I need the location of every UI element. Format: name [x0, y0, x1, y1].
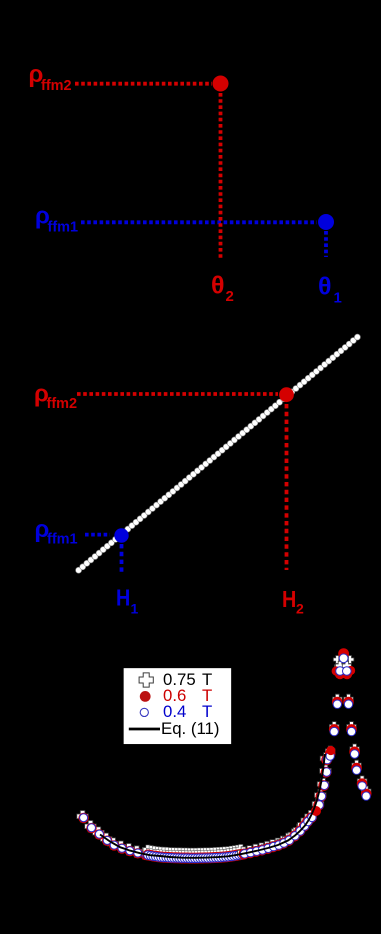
- legend blue open circle marker 0.4 T: [140, 708, 148, 716]
- label rho_ffm1 (middle panel, blue): [35, 516, 78, 548]
- red horizontal dotted line (middle panel): [77, 392, 278, 396]
- red dot H2 (middle panel): [279, 387, 294, 402]
- svg-text:H: H: [282, 587, 296, 613]
- blue vertical dotted line (top panel): [324, 231, 328, 257]
- red dot theta2 (top panel): [213, 76, 229, 92]
- diagonal chain of white data circles (middle panel): [76, 334, 361, 573]
- 0.6 T red circle markers: left slope: [78, 813, 150, 860]
- Eq. (11) black theory curve: [100, 754, 325, 858]
- svg-text:ffm2: ffm2: [41, 78, 72, 94]
- 0.75 T white cross markers: left slope: [77, 811, 151, 860]
- peak cluster: white/blue circles (0.4 T): [336, 654, 351, 675]
- peak cluster: white crosses (0.75 T): [333, 654, 354, 671]
- 0.4 T white/blue circle markers: spike branches: [326, 668, 370, 801]
- blue horizontal dotted line (top panel): [81, 220, 317, 224]
- 0.75 T cross markers: dense flat band: [143, 845, 245, 858]
- label H_2 (red): [282, 587, 304, 617]
- svg-text:θ: θ: [211, 272, 225, 300]
- 0.4 T white/blue circle markers: right slope chain: [240, 755, 331, 858]
- 0.6 T red circle markers: dense flat band: [143, 849, 248, 864]
- red vertical dotted line (middle panel): [285, 404, 289, 570]
- red vertical dotted line (top panel): [219, 93, 223, 260]
- 0.6 T red circle markers: spike branches: [325, 664, 372, 799]
- blue vertical dotted line (middle panel): [120, 544, 124, 574]
- 0.75 T cross markers: spike branches: [325, 662, 371, 796]
- svg-text:Eq. (11): Eq. (11): [161, 719, 219, 738]
- label rho_ffm2 (top panel, red): [29, 61, 72, 94]
- blue dot theta1 (top panel): [318, 214, 334, 230]
- legend box: [123, 668, 232, 745]
- svg-text:ffm2: ffm2: [47, 396, 78, 412]
- red horizontal dotted line (top panel): [75, 82, 212, 86]
- legend red circle marker 0.6 T: [140, 691, 151, 702]
- peak cluster: red circles cap (0.6 T): [332, 648, 356, 679]
- label rho_ffm1 (top panel, blue): [35, 202, 78, 235]
- svg-text:ffm1: ffm1: [47, 532, 78, 548]
- svg-text:H: H: [116, 585, 130, 611]
- svg-text:θ: θ: [318, 273, 332, 301]
- blue dot H1 (middle panel): [114, 528, 128, 542]
- 0.75 T cross markers: right slope chain: [238, 753, 332, 859]
- extra red 0.6T markers visible on steep left branch: [311, 746, 335, 816]
- legend cross marker 0.75 T: [139, 673, 153, 687]
- svg-text:2: 2: [296, 601, 304, 617]
- legend black line sample Eq. (11): [129, 728, 160, 731]
- 0.6 T red circle markers: right slope chain: [239, 754, 332, 859]
- label theta_1 (blue): [318, 273, 342, 307]
- 0.4 T white/blue circle markers: dense flat band: [144, 850, 246, 862]
- svg-text:1: 1: [131, 601, 139, 617]
- svg-text:ffm1: ffm1: [48, 220, 79, 236]
- svg-text:1: 1: [334, 290, 342, 307]
- label H_1 (blue): [116, 585, 139, 616]
- 0.4 T white/blue circle markers: left slope: [80, 814, 150, 859]
- legend text 0.75 T: [161, 670, 219, 738]
- svg-text:2: 2: [226, 288, 234, 305]
- label rho_ffm2 (middle panel, red): [34, 381, 77, 413]
- label theta_2 (red): [211, 272, 234, 306]
- blue horizontal dotted line (middle panel): [85, 533, 110, 537]
